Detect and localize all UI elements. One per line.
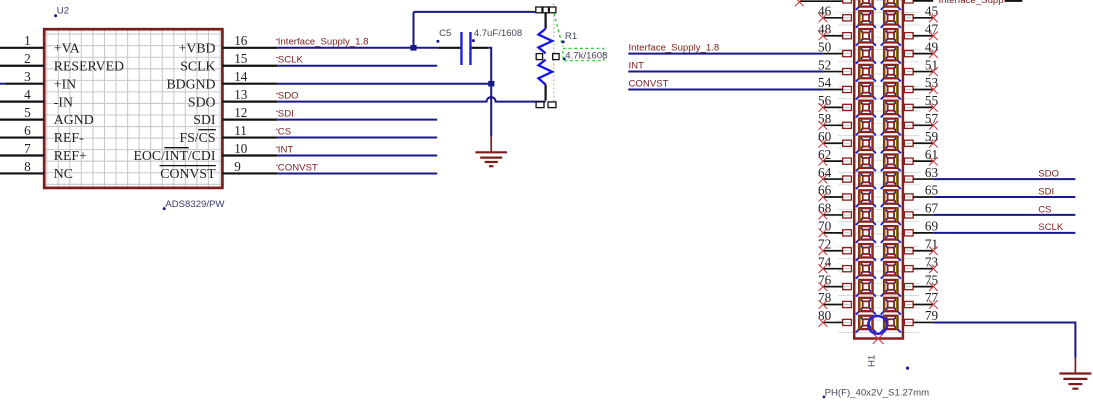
- svg-text:H1: H1: [867, 355, 878, 367]
- svg-text:12: 12: [234, 105, 247, 120]
- svg-text:2: 2: [24, 51, 31, 66]
- svg-text:CS: CS: [278, 126, 291, 137]
- svg-text:AGND: AGND: [54, 112, 94, 127]
- svg-text:67: 67: [925, 201, 939, 216]
- svg-text:4.7uF/1608: 4.7uF/1608: [474, 28, 523, 39]
- svg-text:SDI: SDI: [1038, 186, 1054, 197]
- svg-text:+VA: +VA: [54, 40, 80, 55]
- svg-text:+VBD: +VBD: [179, 40, 216, 55]
- svg-text:NC: NC: [54, 166, 73, 181]
- svg-text:CONVST: CONVST: [629, 78, 669, 89]
- svg-text:7: 7: [24, 141, 31, 156]
- svg-text:BDGND: BDGND: [166, 76, 215, 91]
- svg-text:4.7k/1608: 4.7k/1608: [565, 50, 607, 61]
- svg-text:SDO: SDO: [278, 91, 299, 102]
- svg-text:11: 11: [234, 123, 247, 138]
- svg-text:EOC/INT/CDI: EOC/INT/CDI: [133, 148, 215, 163]
- svg-text:50: 50: [818, 39, 832, 54]
- svg-text:52: 52: [818, 57, 831, 72]
- svg-text:RESERVED: RESERVED: [54, 58, 124, 73]
- svg-text:-IN: -IN: [54, 94, 73, 109]
- svg-text:CONVST: CONVST: [278, 162, 318, 173]
- svg-text:4: 4: [24, 87, 31, 102]
- svg-text:SCLK: SCLK: [1038, 222, 1064, 233]
- svg-text:6: 6: [24, 123, 31, 138]
- svg-text:3: 3: [24, 69, 31, 84]
- svg-text:9: 9: [234, 159, 241, 174]
- svg-text:63: 63: [925, 165, 939, 180]
- svg-text:R1: R1: [565, 31, 577, 42]
- svg-text:1: 1: [24, 33, 31, 48]
- svg-text:79: 79: [925, 308, 939, 323]
- svg-text:13: 13: [234, 87, 248, 102]
- svg-text:5: 5: [24, 105, 31, 120]
- svg-text:8: 8: [24, 159, 31, 174]
- svg-text:CS: CS: [1038, 204, 1051, 215]
- svg-text:SCLK: SCLK: [278, 55, 304, 66]
- svg-text:Interface_Supply_1.8: Interface_Supply_1.8: [629, 42, 720, 53]
- svg-text:SDO: SDO: [188, 94, 216, 109]
- svg-text:10: 10: [234, 141, 248, 156]
- svg-text:REF-: REF-: [54, 130, 84, 145]
- svg-text:65: 65: [925, 183, 939, 198]
- svg-text:54: 54: [818, 75, 832, 90]
- svg-text:INT: INT: [278, 144, 294, 155]
- svg-text:FS/CS: FS/CS: [179, 130, 215, 145]
- svg-text:INT: INT: [629, 60, 645, 71]
- svg-text:SDI: SDI: [278, 109, 294, 120]
- svg-text:Interface_Supply_1.8: Interface_Supply_1.8: [278, 37, 369, 48]
- svg-text:+IN: +IN: [54, 76, 76, 91]
- svg-text:SCLK: SCLK: [180, 58, 215, 73]
- svg-text:PH(F)_40x2V_S1.27mm: PH(F)_40x2V_S1.27mm: [825, 387, 930, 398]
- svg-text:SDO: SDO: [1038, 168, 1059, 179]
- svg-text:CONVST: CONVST: [160, 166, 216, 181]
- svg-text:REF+: REF+: [54, 148, 87, 163]
- svg-text:14: 14: [234, 69, 248, 84]
- svg-text:C5: C5: [439, 28, 451, 39]
- svg-text:SDI: SDI: [193, 112, 216, 127]
- svg-text:U2: U2: [57, 6, 69, 17]
- svg-text:69: 69: [925, 219, 939, 234]
- svg-text:ADS8329/PW: ADS8329/PW: [165, 199, 225, 210]
- svg-text:15: 15: [234, 51, 248, 66]
- svg-text:16: 16: [234, 33, 248, 48]
